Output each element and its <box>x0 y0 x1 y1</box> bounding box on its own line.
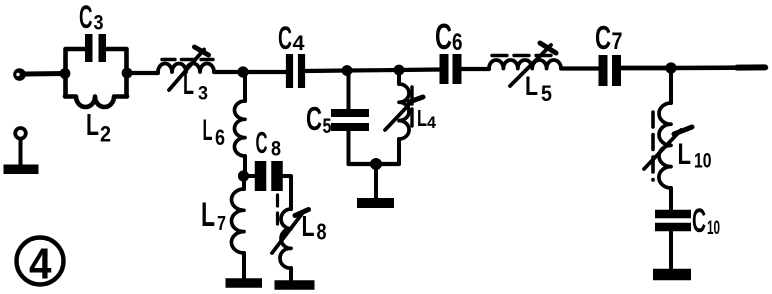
svg-text:C: C <box>79 0 93 35</box>
wire bottom rail <box>349 162 400 166</box>
ground terminal left <box>15 128 26 139</box>
wire tank to L3 <box>127 71 158 75</box>
node C5 branch <box>342 65 353 76</box>
svg-text:L: L <box>203 114 213 147</box>
wire C5 to rail <box>347 131 351 164</box>
inductor L2 <box>65 97 127 108</box>
wire L5 to C7 <box>561 66 599 70</box>
wire tank left vertical <box>66 49 86 97</box>
svg-text:6: 6 <box>215 125 225 150</box>
capacitor C8 <box>255 161 267 191</box>
wire C5 node down <box>347 71 351 110</box>
svg-text:6: 6 <box>452 29 463 56</box>
svg-text:L: L <box>201 196 215 234</box>
svg-text:C: C <box>306 100 322 137</box>
figure number circle 4 <box>17 238 64 285</box>
svg-text:L: L <box>183 68 194 101</box>
svg-text:C: C <box>435 16 452 57</box>
svg-text:4: 4 <box>427 113 437 132</box>
svg-text:8: 8 <box>317 219 327 245</box>
svg-text:10: 10 <box>707 218 720 239</box>
svg-text:10: 10 <box>694 150 712 173</box>
ground C5/L4 <box>357 198 394 208</box>
node rail <box>370 158 382 170</box>
svg-text:2: 2 <box>100 122 111 147</box>
node L6 branch <box>237 66 248 77</box>
wire C8 to L8 branch <box>283 176 291 209</box>
wire L4 node to C6 <box>399 67 440 72</box>
inductor L6 <box>234 101 245 156</box>
wire tank right vertical <box>106 49 127 97</box>
svg-text:L: L <box>525 71 538 101</box>
wire L8 to ground <box>289 268 293 281</box>
node left of tank <box>60 68 71 79</box>
node C8 junction <box>238 170 249 181</box>
inductor L8 <box>280 209 291 268</box>
svg-text:7: 7 <box>217 213 226 235</box>
svg-text:5: 5 <box>323 115 332 138</box>
wire L10 to C10 <box>669 188 673 210</box>
node L10 branch <box>665 62 676 73</box>
wire C5 node to L4 node <box>347 68 399 73</box>
svg-text:7: 7 <box>612 28 623 55</box>
svg-text:4: 4 <box>29 240 52 289</box>
ground L8 <box>275 280 315 290</box>
wire input to tank <box>25 71 65 77</box>
svg-text:C: C <box>278 20 292 56</box>
wire C6 to L5 <box>461 67 489 71</box>
svg-text:5: 5 <box>541 81 552 106</box>
ground L7 <box>226 278 263 288</box>
ground C10 <box>653 269 691 281</box>
svg-text:C: C <box>692 202 706 240</box>
inductor L5 <box>489 60 561 69</box>
svg-text:L: L <box>302 211 315 243</box>
wire C10 to ground <box>669 231 673 268</box>
svg-text:L: L <box>86 107 99 142</box>
svg-text:4: 4 <box>293 32 305 55</box>
wire L6 to C8 node <box>243 156 247 176</box>
node right of tank <box>122 68 133 79</box>
capacitor C10 <box>655 210 691 219</box>
inductor L4 <box>399 84 409 139</box>
wire C8 node down <box>242 176 246 189</box>
input terminal <box>13 68 26 81</box>
svg-text:3: 3 <box>198 84 208 105</box>
wire rail to ground <box>374 164 378 198</box>
svg-text:C: C <box>595 19 611 56</box>
wire node down to L6 <box>243 72 247 101</box>
capacitor C5 <box>331 109 369 117</box>
svg-text:L: L <box>678 138 692 171</box>
wire node to C4 <box>243 70 286 74</box>
capacitor C3 <box>85 34 93 62</box>
wire node to C8 <box>244 174 255 178</box>
svg-text:3: 3 <box>94 12 104 35</box>
wire L10 node down <box>669 68 673 103</box>
wire L3 to node <box>214 70 243 74</box>
inductor L7 <box>231 189 244 253</box>
wire L4 to rail <box>397 139 401 164</box>
inductor L10 <box>659 103 671 188</box>
node L4 branch <box>394 65 405 76</box>
svg-text:C: C <box>256 125 268 160</box>
capacitor C7 <box>599 55 608 86</box>
svg-text:8: 8 <box>271 138 281 161</box>
wire L10 node to right edge <box>671 65 766 70</box>
wire C4 to C5 node <box>305 68 347 73</box>
svg-text:L: L <box>417 105 427 131</box>
inductor L3 <box>158 64 214 72</box>
wire L7 to ground <box>242 253 246 279</box>
capacitor C6 <box>440 54 449 84</box>
capacitor C4 <box>286 54 293 88</box>
wire L4 node down <box>397 70 401 84</box>
wire C7 to L10 node <box>620 66 671 71</box>
